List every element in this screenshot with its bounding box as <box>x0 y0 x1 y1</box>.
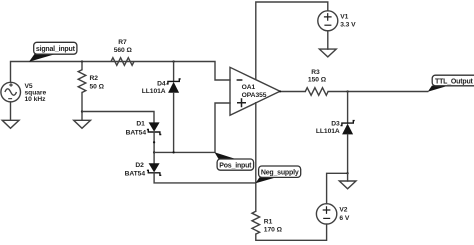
svg-text:R7: R7 <box>118 39 127 46</box>
net label Neg_supply <box>256 166 301 183</box>
svg-text:50 Ω: 50 Ω <box>90 83 105 90</box>
wire D3 anode down to ground junction <box>347 134 349 173</box>
diode D1 BAT54 (schottky, cathode down) <box>126 121 162 137</box>
svg-text:D2: D2 <box>135 162 144 169</box>
ground (below R2) <box>74 120 91 128</box>
svg-text:D3: D3 <box>331 121 340 128</box>
svg-text:OA1: OA1 <box>242 84 256 91</box>
svg-text:LL101A: LL101A <box>142 88 166 95</box>
wire R1 bottom over to V2 bottom <box>256 224 327 240</box>
svg-text:LL101A: LL101A <box>316 128 340 135</box>
wire D3 cathode stub down from output net <box>347 92 349 124</box>
net label signal_input <box>29 42 77 62</box>
svg-text:560 Ω: 560 Ω <box>114 47 133 54</box>
svg-text:10 kHz: 10 kHz <box>25 96 47 103</box>
svg-text:R2: R2 <box>90 75 99 82</box>
svg-text:signal_input: signal_input <box>36 46 76 53</box>
wire D4 anode down to Pos_input net <box>173 93 175 153</box>
svg-text:Neg_supply: Neg_supply <box>261 170 299 177</box>
wire D2 cathode down and right to Neg_supply node <box>154 173 256 183</box>
wire signal net: V5 top, main horizontal run, down to op-amp inverting input <box>11 62 231 83</box>
svg-text:D4: D4 <box>157 81 166 88</box>
voltage source V2 6 V <box>316 204 349 224</box>
resistor R2 50 Ω <box>78 70 104 93</box>
wire op-amp V+ supply up and over to V1 <box>256 2 328 79</box>
svg-text:BAT54: BAT54 <box>125 171 146 178</box>
svg-text:6 V: 6 V <box>339 215 349 222</box>
svg-text:3.3 V: 3.3 V <box>340 22 356 29</box>
svg-text:BAT54: BAT54 <box>126 129 147 136</box>
svg-text:V2: V2 <box>339 207 347 214</box>
net label TTL_Output <box>428 75 474 92</box>
node: op-amp output pin <box>279 90 281 92</box>
wire op-amp output to R3 <box>280 91 305 93</box>
resistor R3 150 Ω <box>305 69 328 95</box>
wire Pos_input net horizontal and up to op-amp + input <box>154 103 230 152</box>
resistor R7 560 Ω <box>111 39 134 65</box>
node: junction D4 anode / Pos_input net <box>172 151 174 153</box>
svg-text:TTL_Output: TTL_Output <box>435 78 474 85</box>
voltage source V1 3.3 V <box>318 11 356 31</box>
node: junction D3 / V2 / ground <box>346 172 348 174</box>
voltage source V5 (square 10 kHz) <box>1 82 47 103</box>
wire R2 top stub <box>81 62 83 70</box>
svg-text:170 Ω: 170 Ω <box>264 226 283 233</box>
net label Pos_input <box>215 152 254 170</box>
svg-text:V1: V1 <box>340 14 348 21</box>
svg-text:OPA355: OPA355 <box>242 92 267 99</box>
wire R2 bottom to ground <box>81 93 83 121</box>
svg-text:D1: D1 <box>136 121 145 128</box>
ground (below D3/V2 junction) <box>339 181 356 189</box>
op-amp OA1 OPA355 <box>230 67 280 115</box>
wire D1 cathode down through Pos_input net to D2 anode <box>153 132 155 163</box>
wire V1 ground stem <box>327 31 329 49</box>
ground (below V5) <box>2 120 19 128</box>
wire V2 top up and right to ground junction <box>327 173 348 203</box>
node: junction R2 bottom / D1 branch <box>81 110 83 112</box>
svg-text:Pos_input: Pos_input <box>219 163 252 170</box>
wire ground stem at D3/V2 junction <box>347 173 349 181</box>
svg-text:150 Ω: 150 Ω <box>308 77 327 84</box>
resistor R1 170 Ω <box>252 211 283 234</box>
ground (below V1) <box>319 49 336 57</box>
node: junction output net / D3 <box>346 90 348 92</box>
wire R3 to TTL_Output anchor <box>328 91 428 93</box>
diode D2 BAT54 (schottky, cathode down) <box>125 162 162 178</box>
wire D4 cathode stub <box>173 62 175 82</box>
wire op-amp V- supply down to Neg_supply node and R1 <box>255 103 257 212</box>
wire from R2 bottom junction to D1 anode <box>82 112 154 123</box>
svg-text:R1: R1 <box>264 219 273 226</box>
node: junction of signal net and D4 <box>172 60 174 62</box>
diode D4 LL101A (schottky, cathode up) <box>142 79 181 95</box>
node: dot below D1 <box>153 141 155 143</box>
wire V5 ground stem <box>10 102 12 120</box>
node: junction D1/D2 with Pos_input net <box>153 151 155 153</box>
node: junction of signal net and R2 <box>81 60 83 62</box>
svg-text:R3: R3 <box>311 69 320 76</box>
diode D3 LL101A (schottky, cathode up) <box>316 121 355 135</box>
